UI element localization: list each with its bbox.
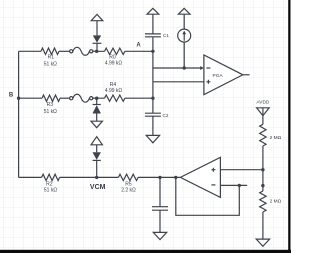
junction dot divider mid	[261, 168, 264, 171]
diode D1 (cathode bar, to supply arrow)	[96, 44, 98, 52]
current source I1	[178, 29, 191, 42]
junction dot filter cap tap	[158, 176, 161, 179]
wire divider to ground	[262, 212, 264, 239]
wire arrow to C1	[152, 14, 154, 34]
svg-text:R1: R1	[48, 54, 55, 60]
resistor 2MOhm upper	[260, 124, 266, 146]
wire branch1 left segment	[19, 50, 41, 52]
wire R0 to node A	[125, 50, 153, 52]
resistor R4	[97, 95, 125, 101]
svg-text:PGA: PGA	[213, 73, 224, 79]
supply arrow above current source	[178, 8, 190, 14]
wire branch2 left segment	[19, 97, 42, 99]
ground below C2	[146, 135, 159, 142]
svg-text:C1: C1	[163, 33, 169, 38]
svg-text:C2: C2	[163, 113, 169, 118]
svg-text:51 kΩ: 51 kΩ	[44, 109, 57, 115]
wire left vertical bus	[18, 51, 20, 177]
wire R2 to VCM node	[60, 176, 119, 178]
ground below divider	[256, 239, 269, 246]
wire R1 to terminal	[59, 50, 69, 52]
wire C2 to ground	[152, 116, 154, 135]
diode D3 (to VCM node)	[96, 145, 98, 152]
wire PGA plus input	[153, 81, 204, 83]
wire R5 to op-amp output	[138, 176, 180, 178]
wire feedback loop	[176, 177, 240, 215]
junction dot branch2 diode tap	[95, 97, 98, 100]
svg-text:2 MΩ: 2 MΩ	[270, 199, 282, 205]
terminal circle branch1 left	[70, 50, 73, 53]
wire current source to PGA minus wire	[183, 42, 185, 68]
ground below C3	[153, 232, 166, 239]
svg-text:2.2 kΩ: 2.2 kΩ	[121, 187, 136, 193]
op-amp PGA U1	[204, 55, 243, 95]
svg-text:AVDD: AVDD	[256, 100, 270, 106]
junction dot VCM node	[95, 176, 98, 179]
screenshot border right	[288, 0, 290, 253]
wire R4 to spine	[125, 97, 153, 99]
junction dot branch2 at spine	[151, 97, 154, 100]
terminal circle branch2 left	[70, 97, 73, 100]
resistor R2	[42, 174, 60, 180]
capacitor C1	[145, 34, 161, 37]
resistor 2MOhm lower	[260, 191, 266, 212]
wire spine C1 to C2	[152, 37, 154, 113]
supply arrow above D1	[91, 14, 103, 20]
terminal circle branch1 right	[90, 50, 93, 53]
wire branch3 left segment	[19, 176, 42, 178]
junction dot on divider at feedback level	[261, 184, 264, 187]
wire U2 minus input	[220, 184, 247, 186]
junction dot minus feedback	[238, 184, 241, 187]
junction dot current source tap	[183, 66, 186, 69]
arrow terminal up (from VCM)	[91, 137, 102, 145]
junction dot at C1 spine	[151, 50, 154, 53]
wire PGA minus input	[153, 67, 201, 69]
resistor R1	[41, 48, 59, 54]
screenshot border bottom	[0, 250, 291, 253]
diode D2 (down from node B branch)	[96, 98, 98, 104]
svg-text:VCM: VCM	[90, 184, 106, 191]
arrowhead into PGA minus	[200, 66, 204, 70]
op-amp U2 (buffer, pointing left)	[180, 157, 220, 197]
wire PGA output stub	[243, 74, 250, 76]
capacitor C2	[145, 113, 161, 116]
junction dot node B	[17, 97, 20, 100]
wire U2 plus input to divider	[220, 169, 263, 171]
fuse wave branch1	[73, 47, 90, 55]
svg-text:B: B	[9, 92, 14, 98]
resistor R0	[97, 48, 125, 54]
svg-text:R3: R3	[47, 102, 54, 108]
wire terminal to node	[93, 97, 97, 99]
supply arrow above C1	[147, 8, 159, 14]
resistor R5	[118, 174, 138, 180]
resistor R3	[42, 95, 60, 101]
capacitor C3 (output filter)	[159, 177, 161, 206]
svg-text:4.99 kΩ: 4.99 kΩ	[105, 61, 123, 67]
svg-text:A: A	[136, 43, 141, 49]
junction dot feedback tap	[174, 176, 177, 179]
wire terminal to node	[93, 50, 97, 52]
arrow terminal down (VCM rail)	[91, 121, 102, 128]
fuse wave branch2	[73, 94, 90, 102]
junction dot branch1 diode tap	[95, 50, 98, 53]
svg-text:51 kΩ: 51 kΩ	[44, 187, 57, 193]
svg-text:4.99 kΩ: 4.99 kΩ	[105, 88, 123, 94]
svg-text:2 MΩ: 2 MΩ	[270, 135, 282, 141]
power symbol AVDD	[257, 108, 270, 116]
wire divider mid	[262, 146, 264, 191]
svg-text:51 kΩ: 51 kΩ	[44, 61, 57, 67]
wire R3 to terminal	[60, 97, 69, 99]
terminal circle branch2 right	[90, 97, 93, 100]
wire arrow to current source	[183, 14, 185, 29]
